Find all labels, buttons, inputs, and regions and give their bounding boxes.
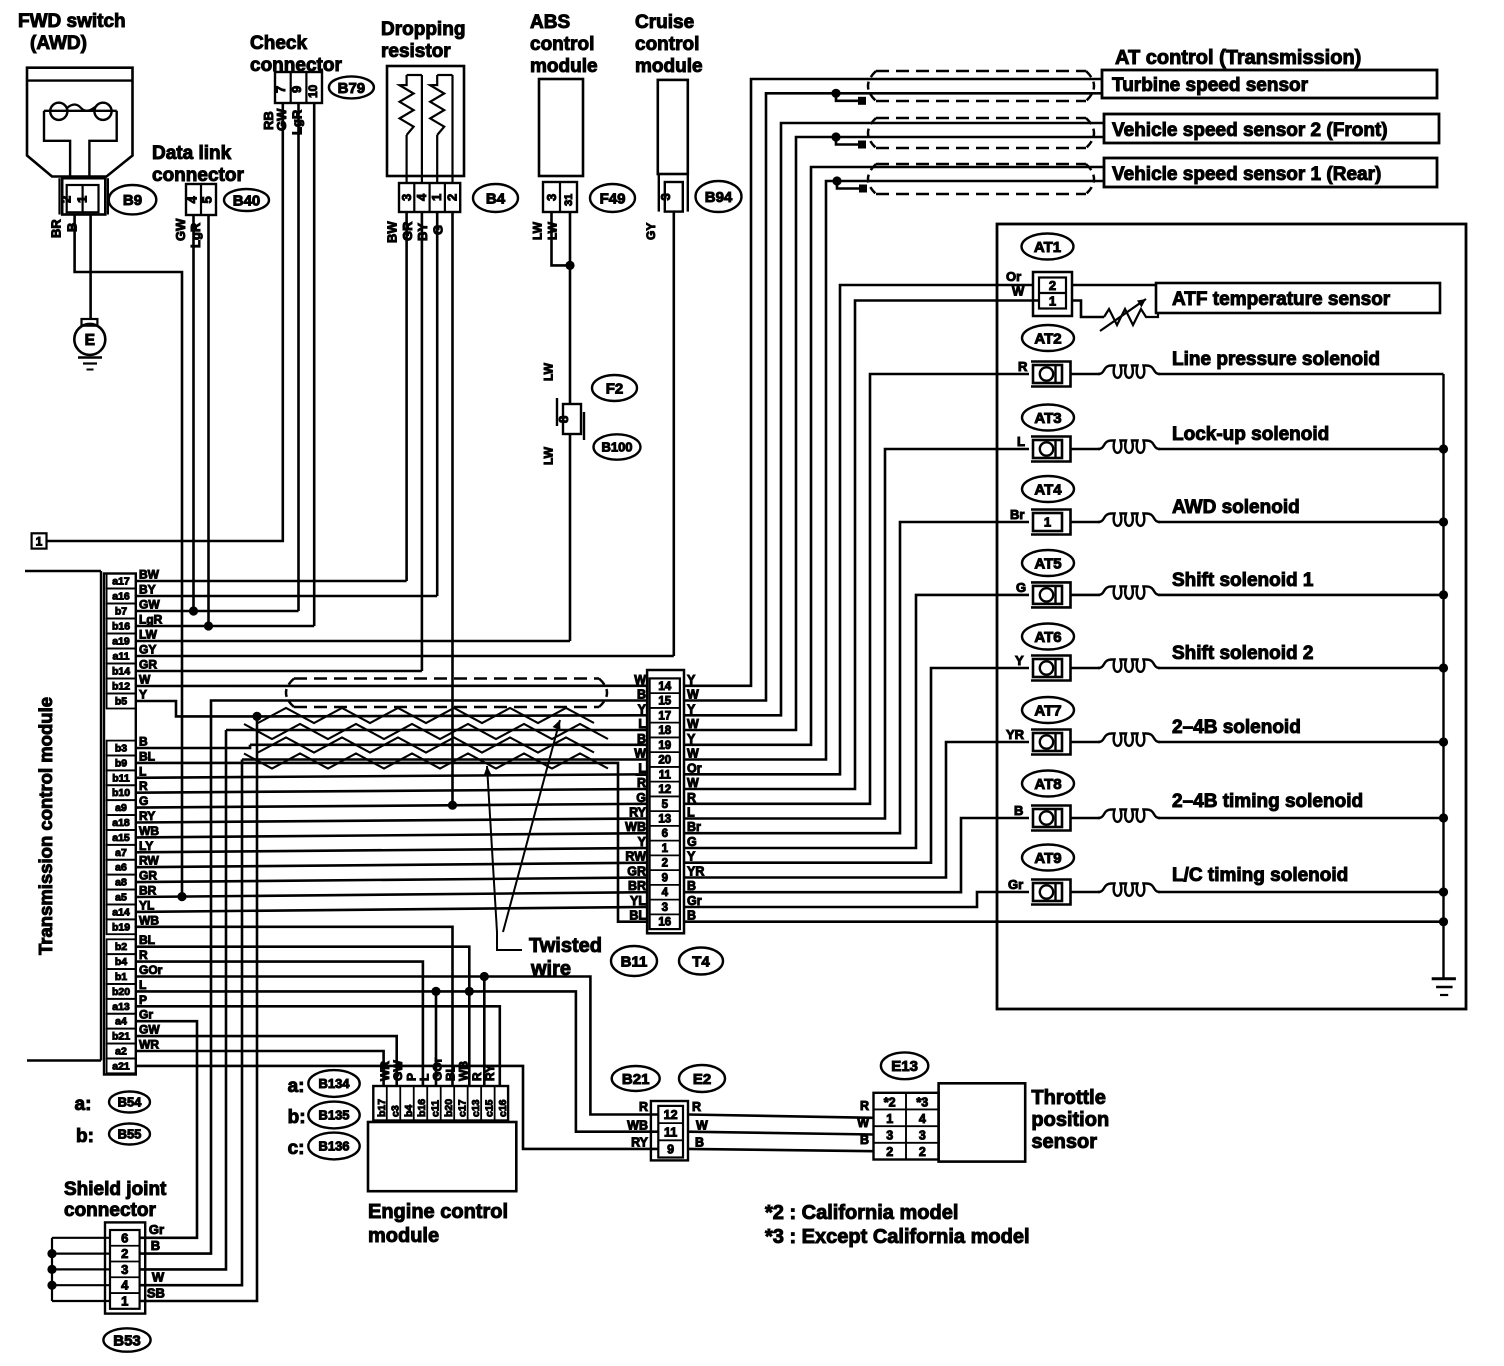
Engine control module label xyxy=(368,1201,508,1247)
junction AT5 at ground bus xyxy=(1439,590,1448,599)
svg-text:Turbine speed sensor: Turbine speed sensor xyxy=(1112,75,1309,96)
junction SJC bus 2 xyxy=(47,1249,56,1258)
svg-text:GW: GW xyxy=(173,218,188,241)
svg-text:L: L xyxy=(1017,434,1025,449)
svg-text:BL: BL xyxy=(629,909,646,923)
svg-text:3: 3 xyxy=(886,1129,893,1143)
Turbine speed sensor box xyxy=(1102,70,1437,98)
svg-text:2: 2 xyxy=(662,858,668,870)
svg-text:GW: GW xyxy=(139,598,160,612)
wire dropping pin2 G down to a9/G row xyxy=(451,212,454,805)
svg-text:BL: BL xyxy=(139,749,155,763)
solenoid connector AT5 xyxy=(1016,580,1071,608)
svg-text:a5: a5 xyxy=(115,892,127,904)
svg-text:2: 2 xyxy=(121,1246,128,1261)
oval AT4 xyxy=(1022,476,1074,502)
svg-text:T4: T4 xyxy=(692,953,710,970)
continuation marker box 1 xyxy=(32,533,47,548)
wire AT9 solenoid to ground bus xyxy=(1071,891,1444,894)
svg-text:a15: a15 xyxy=(112,832,130,844)
svg-text:B: B xyxy=(687,909,696,923)
oval B9 xyxy=(109,185,157,214)
svg-text:15: 15 xyxy=(658,696,671,708)
svg-text:RY: RY xyxy=(631,1136,649,1150)
svg-text:module: module xyxy=(368,1225,439,1247)
svg-text:B100: B100 xyxy=(601,440,632,455)
wire a7 LY to B11 pin1 xyxy=(136,848,647,852)
FWD switch S1 symbol xyxy=(27,68,133,177)
TCM pin a14 xyxy=(107,898,155,919)
svg-text:L/C timing solenoid: L/C timing solenoid xyxy=(1172,865,1348,886)
svg-text:a21: a21 xyxy=(112,1060,130,1072)
Twisted wire label with pointers xyxy=(484,720,602,980)
svg-text:BW: BW xyxy=(385,221,400,243)
wire b12 W to B11 pin14 xyxy=(136,684,647,687)
oval AT2 xyxy=(1022,325,1074,351)
oval F49 xyxy=(590,184,635,212)
svg-text:Y: Y xyxy=(638,702,647,716)
svg-text:connector: connector xyxy=(64,1200,156,1221)
junction BL/L wires xyxy=(465,987,474,996)
svg-text:W: W xyxy=(139,673,151,687)
VSS2 shield drain wire xyxy=(836,137,866,149)
svg-text:18: 18 xyxy=(658,725,671,737)
wire b20 L to B21 pin11 and ECM pin5 xyxy=(136,991,658,1131)
TCM pin b2 xyxy=(107,933,155,954)
svg-text:WR: WR xyxy=(139,1038,159,1052)
TCM pin b16 xyxy=(107,613,163,634)
wire label G xyxy=(431,225,446,235)
TCM pin a8 xyxy=(107,869,158,890)
svg-text:b3: b3 xyxy=(115,743,127,755)
wire b3 B to B11 pin19 (twisted) xyxy=(136,745,250,748)
wire B11 pin14 to turbine speed sensor (top) xyxy=(684,79,1103,686)
svg-text:Check: Check xyxy=(250,33,307,54)
Shift solenoid 2 label xyxy=(1172,643,1313,664)
svg-text:c:: c: xyxy=(288,1138,305,1159)
svg-text:AT7: AT7 xyxy=(1034,702,1061,719)
svg-text:AT6: AT6 xyxy=(1034,629,1061,646)
junction AT3 at ground bus xyxy=(1439,444,1448,453)
wire label LW xyxy=(542,446,556,465)
shield (dashed) around VSS1 pair xyxy=(868,164,1094,194)
svg-text:ATF temperature sensor: ATF temperature sensor xyxy=(1172,289,1391,310)
wire AT5 row from B11 pin1 xyxy=(684,595,1029,848)
svg-text:1: 1 xyxy=(429,194,444,201)
B11 pin 11 xyxy=(638,761,701,781)
AWD solenoid label xyxy=(1172,497,1300,518)
connector B11/T4 strip xyxy=(647,670,684,933)
svg-text:YL: YL xyxy=(139,898,154,912)
oval B100 xyxy=(594,434,641,459)
wire B11 pin20 to VSS1 (bottom) xyxy=(684,181,1104,760)
svg-text:5: 5 xyxy=(662,799,669,811)
TCM pin b7 xyxy=(107,598,161,619)
SJC shield bus left xyxy=(52,1238,110,1301)
B11 pin 14 xyxy=(634,673,696,693)
svg-text:LY: LY xyxy=(139,839,153,853)
wire B11 pin19 to VSS1 (top) xyxy=(684,167,1104,745)
svg-text:L: L xyxy=(139,978,146,992)
footnote *2 California model xyxy=(765,1202,958,1224)
shield (dashed) around VSS2 pair xyxy=(868,118,1094,148)
wire B21 pin12 R to TPS xyxy=(688,1115,874,1118)
junction SB at twisted pair xyxy=(252,712,261,721)
svg-text:2: 2 xyxy=(919,1145,926,1159)
Engine control module box xyxy=(368,1122,516,1191)
svg-text:b12: b12 xyxy=(112,681,130,693)
wire label LW xyxy=(531,221,545,240)
wire b4 R to ECM pin4 xyxy=(136,962,423,1086)
TCM pin a4 xyxy=(107,1008,154,1029)
wire SJC pin2 up to B11 pin15 xyxy=(140,701,647,1254)
solenoid connector AT6 xyxy=(1015,653,1071,681)
svg-text:*2 : California model: *2 : California model xyxy=(765,1202,958,1224)
svg-text:Vehicle speed sensor 2 (Front): Vehicle speed sensor 2 (Front) xyxy=(1112,120,1388,141)
wire label GY xyxy=(644,223,658,240)
svg-text:2–4B timing solenoid: 2–4B timing solenoid xyxy=(1172,791,1363,812)
svg-text:R: R xyxy=(637,776,646,790)
svg-text:11: 11 xyxy=(664,1125,677,1139)
svg-text:B54: B54 xyxy=(118,1095,143,1110)
svg-text:b19: b19 xyxy=(112,921,130,933)
svg-text:a17: a17 xyxy=(112,576,130,588)
TCM pin a21 xyxy=(107,1059,136,1074)
svg-text:a7: a7 xyxy=(115,847,127,859)
wire a6 RW to B11 pin2 xyxy=(136,863,647,868)
wire b10 R to B11 pin12 xyxy=(136,789,647,793)
footnote *3 Except California model xyxy=(765,1226,1030,1248)
Data link connector label xyxy=(152,143,244,186)
connector B94 (cruise) pin 3 xyxy=(658,174,688,212)
svg-text:RW: RW xyxy=(625,850,646,864)
B11 pin 4 xyxy=(628,879,696,899)
L/C timing solenoid label xyxy=(1172,865,1348,886)
svg-text:E13: E13 xyxy=(891,1058,918,1075)
svg-text:B55: B55 xyxy=(118,1127,142,1142)
wire FWD pin2 BR down-right-down to TCM a5 row xyxy=(75,215,182,897)
Shield joint connector label xyxy=(64,1179,167,1221)
svg-text:AT8: AT8 xyxy=(1034,776,1061,793)
solenoid coil L4 xyxy=(1098,514,1160,526)
wire a13 P to ECM pin9 xyxy=(136,1006,500,1086)
svg-text:B: B xyxy=(860,1133,869,1147)
svg-text:a9: a9 xyxy=(115,802,127,814)
svg-text:a6: a6 xyxy=(115,862,127,874)
B11 pin 15 xyxy=(637,688,699,708)
svg-text:GR: GR xyxy=(139,869,157,883)
dropping resistor R1 body xyxy=(387,66,464,183)
wire label B xyxy=(65,223,80,232)
wire a16 BY to dropping resistor pin1 xyxy=(136,595,437,598)
svg-text:Gr: Gr xyxy=(139,1008,153,1022)
B11 pin 16 xyxy=(629,909,696,929)
svg-text:c17: c17 xyxy=(457,1099,469,1117)
svg-text:6: 6 xyxy=(121,1230,128,1245)
svg-text:B94: B94 xyxy=(705,189,733,206)
oval E2 xyxy=(679,1065,725,1092)
svg-text:AT3: AT3 xyxy=(1034,410,1061,427)
svg-text:RY: RY xyxy=(483,1065,497,1081)
junction GW at b7 row xyxy=(189,606,198,615)
svg-text:Gr: Gr xyxy=(149,1222,164,1237)
svg-text:WB: WB xyxy=(139,913,159,927)
svg-text:4: 4 xyxy=(662,887,669,899)
TCM pin a7 xyxy=(107,839,154,860)
svg-text:L: L xyxy=(417,1074,431,1081)
svg-text:1: 1 xyxy=(662,843,669,855)
TCM pin a2 xyxy=(107,1038,160,1059)
svg-text:L: L xyxy=(687,806,695,820)
svg-text:Engine control: Engine control xyxy=(368,1201,508,1223)
svg-text:YR: YR xyxy=(1006,727,1025,742)
wire label GR xyxy=(400,221,415,241)
svg-text:Gr: Gr xyxy=(1008,877,1023,892)
wire AT4 row from B11 pin6 xyxy=(684,522,1029,833)
svg-text:LgR: LgR xyxy=(139,613,163,627)
connector B100 pin 8 xyxy=(556,398,584,440)
wire AT2 row from B11 pin5 xyxy=(684,374,1029,804)
solenoid connector AT7 xyxy=(1006,727,1071,755)
wire a11 GY to cruise control module xyxy=(136,655,674,658)
wire AT1 pin1 W from B11 pin12 xyxy=(684,301,1039,790)
svg-text:19: 19 xyxy=(658,740,671,752)
svg-text:P: P xyxy=(404,1073,418,1081)
ECM connector strip pins xyxy=(373,1086,509,1121)
svg-text:F49: F49 xyxy=(600,190,626,207)
svg-text:1: 1 xyxy=(1049,294,1056,309)
svg-text:Br: Br xyxy=(1010,507,1024,522)
svg-text:W: W xyxy=(687,688,699,702)
svg-text:GW: GW xyxy=(139,1023,160,1037)
TCM pin a15 xyxy=(107,824,160,845)
solenoid coil L8 xyxy=(1098,810,1160,822)
svg-text:WB: WB xyxy=(627,1119,648,1133)
svg-text:BR: BR xyxy=(139,884,157,898)
oval B79 xyxy=(329,76,374,98)
svg-text:14: 14 xyxy=(658,681,671,693)
svg-text:WR: WR xyxy=(378,1061,392,1081)
svg-text:a19: a19 xyxy=(112,636,130,648)
wire B100 down to TCM a19 row xyxy=(569,434,572,641)
svg-text:9: 9 xyxy=(662,873,668,885)
svg-text:c3: c3 xyxy=(389,1105,401,1117)
wire b14 GR to dropping resistor pin4 xyxy=(136,670,422,673)
junction LgR at b16 row xyxy=(204,621,213,630)
svg-text:4: 4 xyxy=(185,196,200,204)
wire B21 pin9 B to TPS xyxy=(688,1149,874,1151)
svg-text:1: 1 xyxy=(1044,515,1051,530)
svg-text:(AWD): (AWD) xyxy=(30,33,87,54)
TCM pin a18 xyxy=(107,809,156,830)
wire a18 RY to B11 pin13 xyxy=(136,819,647,823)
TCM pin a5 xyxy=(107,884,157,905)
svg-text:position: position xyxy=(1031,1109,1109,1131)
svg-text:Or: Or xyxy=(1006,269,1021,284)
wire a9 G to B11 pin5 xyxy=(136,804,647,808)
wire label LW xyxy=(542,362,556,381)
svg-text:L: L xyxy=(638,761,646,775)
Line pressure solenoid label xyxy=(1172,349,1380,370)
svg-text:resistor: resistor xyxy=(381,41,451,62)
oval B11 xyxy=(611,946,657,976)
svg-text:BW: BW xyxy=(139,568,160,582)
svg-text:4: 4 xyxy=(121,1278,129,1293)
svg-text:b4: b4 xyxy=(115,956,127,968)
svg-text:a11: a11 xyxy=(113,651,130,663)
svg-text:a:: a: xyxy=(288,1076,305,1097)
svg-text:B: B xyxy=(139,735,148,749)
svg-text:Or: Or xyxy=(687,761,702,775)
wire a19 LW to connector B100 xyxy=(136,640,570,643)
wire a21 to B21 pin9 xyxy=(136,1066,658,1149)
oval B134 (ECM connector a) xyxy=(288,1070,360,1097)
FWD switch (AWD) label xyxy=(18,11,126,54)
svg-text:control: control xyxy=(635,34,699,55)
svg-text:BL: BL xyxy=(444,1065,458,1081)
ground E (body ground) xyxy=(74,319,105,370)
svg-text:b14: b14 xyxy=(112,666,130,678)
junction L branch xyxy=(431,987,440,996)
junction VSS2 shield drain xyxy=(831,132,840,141)
svg-text:W: W xyxy=(634,747,646,761)
svg-text:a16: a16 xyxy=(112,591,130,603)
svg-text:1: 1 xyxy=(121,1293,128,1308)
svg-text:B11: B11 xyxy=(621,953,648,970)
wire label GW xyxy=(173,218,188,241)
svg-text:3: 3 xyxy=(658,193,673,200)
VSS1 shield drain wire xyxy=(837,181,867,193)
TCM pin b10 xyxy=(107,779,148,800)
svg-text:3: 3 xyxy=(919,1129,926,1143)
wire b5 Y stepping down to B11 pin17 (twisted pair) xyxy=(136,701,258,716)
ABS control module U1 box xyxy=(539,79,583,176)
svg-text:c13: c13 xyxy=(470,1099,482,1117)
junction AT4 at ground bus xyxy=(1439,517,1448,526)
svg-text:11: 11 xyxy=(659,769,672,781)
svg-text:W: W xyxy=(857,1116,869,1130)
svg-text:b2: b2 xyxy=(115,941,127,953)
svg-text:*3 : Except California model: *3 : Except California model xyxy=(765,1226,1030,1248)
svg-text:3: 3 xyxy=(544,194,559,201)
svg-text:a:: a: xyxy=(75,1094,92,1115)
B11 pin 20 xyxy=(634,747,699,767)
wire b9 BL to B11 pin16 xyxy=(136,763,647,922)
B11 pin 2 xyxy=(625,850,696,870)
svg-text:LW: LW xyxy=(531,221,545,240)
svg-text:c15: c15 xyxy=(484,1099,496,1117)
svg-text:Shift solenoid 1: Shift solenoid 1 xyxy=(1172,570,1314,591)
wire AT2 solenoid to ground bus xyxy=(1071,373,1444,376)
B11 pin 1 xyxy=(638,835,697,855)
svg-text:Line pressure solenoid: Line pressure solenoid xyxy=(1172,349,1380,370)
svg-text:AT2: AT2 xyxy=(1034,330,1061,347)
TCM pin b19 xyxy=(107,913,160,934)
TCM pin b1 xyxy=(107,963,163,984)
connector B4 (dropping resistor) pins 3,4,1,2 xyxy=(399,183,460,212)
svg-text:control: control xyxy=(530,34,594,55)
svg-text:B136: B136 xyxy=(318,1139,349,1154)
svg-text:4: 4 xyxy=(919,1112,926,1126)
svg-text:a14: a14 xyxy=(112,906,130,918)
svg-text:WB: WB xyxy=(139,824,159,838)
TCM pin b21 xyxy=(107,1023,161,1044)
wire label GW xyxy=(274,108,289,131)
wire SJC pin1 SB up to twisted pair 1 top xyxy=(140,716,257,1301)
wire b1 GOr to ECM pin8 and B21 pin12 xyxy=(136,977,658,1115)
svg-text:AT control (Transmission): AT control (Transmission) xyxy=(1115,47,1361,69)
TCM pin b20 xyxy=(107,978,147,999)
B11 pin 3 xyxy=(630,894,702,914)
B11 pin 17 xyxy=(638,702,696,722)
svg-text:P: P xyxy=(139,993,147,1007)
svg-text:12: 12 xyxy=(658,784,671,796)
connector B40 (data link) pins 4,5 xyxy=(185,184,217,215)
wire AT1 pin2 to ATF temperature sensor box xyxy=(1072,284,1156,287)
svg-text:E2: E2 xyxy=(693,1071,711,1088)
svg-text:5: 5 xyxy=(200,196,215,203)
Throttle position sensor box xyxy=(939,1083,1026,1161)
svg-text:16: 16 xyxy=(658,917,671,929)
svg-text:module: module xyxy=(530,56,598,77)
solenoid connector AT8 xyxy=(1014,803,1071,831)
svg-text:BR: BR xyxy=(49,219,64,238)
svg-text:2: 2 xyxy=(445,194,460,201)
wire dropping pin4 GR down to TCM b14 row xyxy=(421,212,424,671)
AT control (Transmission) heading xyxy=(1115,47,1361,69)
svg-text:b11: b11 xyxy=(112,772,130,784)
wire SJC pin3 up to B11 pin18 (twisted pair 1 low) xyxy=(140,730,226,1269)
svg-text:GW: GW xyxy=(391,1060,405,1081)
Cruise control module U2 box xyxy=(658,80,688,174)
connector F49 (ABS) pins 3,31 xyxy=(543,182,577,212)
ground symbol (transmission case) xyxy=(1432,979,1456,995)
svg-text:R: R xyxy=(139,948,148,962)
oval F2 xyxy=(592,375,637,401)
TCM pin b11 xyxy=(107,764,147,785)
B11 pin 12 xyxy=(637,776,699,796)
svg-text:Y: Y xyxy=(687,702,696,716)
junction VSS1 shield drain xyxy=(832,176,841,185)
svg-text:b10: b10 xyxy=(112,787,130,799)
wire label RB xyxy=(261,111,276,130)
svg-text:1: 1 xyxy=(886,1112,893,1126)
TCM pin b3 xyxy=(107,735,148,756)
wire check pin7 RB down and left to marker 1 xyxy=(47,103,283,541)
svg-text:AT9: AT9 xyxy=(1034,850,1061,867)
TCM pin b9 xyxy=(107,749,155,770)
svg-text:RY: RY xyxy=(139,809,155,823)
wire b21 GW to ECM pin2 xyxy=(136,1036,397,1086)
svg-text:3: 3 xyxy=(662,902,668,914)
wire a5 BR to B11 pin4 xyxy=(136,892,647,897)
wire b19 WB to ECM pin6 xyxy=(136,927,453,1086)
wire AT7 solenoid to ground bus xyxy=(1071,741,1444,744)
wire B11 pin18 to VSS2 (bottom) xyxy=(684,137,1104,730)
oval B94 xyxy=(696,181,742,212)
svg-text:B: B xyxy=(1014,803,1023,818)
svg-text:B134: B134 xyxy=(318,1076,350,1091)
wire AT3 row from B11 pin13 xyxy=(684,449,1029,819)
svg-text:b21: b21 xyxy=(112,1031,130,1043)
oval B136 (ECM connector c) xyxy=(288,1133,360,1160)
solenoid connector AT9 xyxy=(1008,877,1071,905)
svg-text:Dropping: Dropping xyxy=(381,19,465,40)
solenoid coil L9 xyxy=(1098,884,1160,896)
B11 pin 5 xyxy=(636,791,696,811)
B11 pin 13 xyxy=(629,806,695,826)
svg-text:W: W xyxy=(634,673,646,687)
